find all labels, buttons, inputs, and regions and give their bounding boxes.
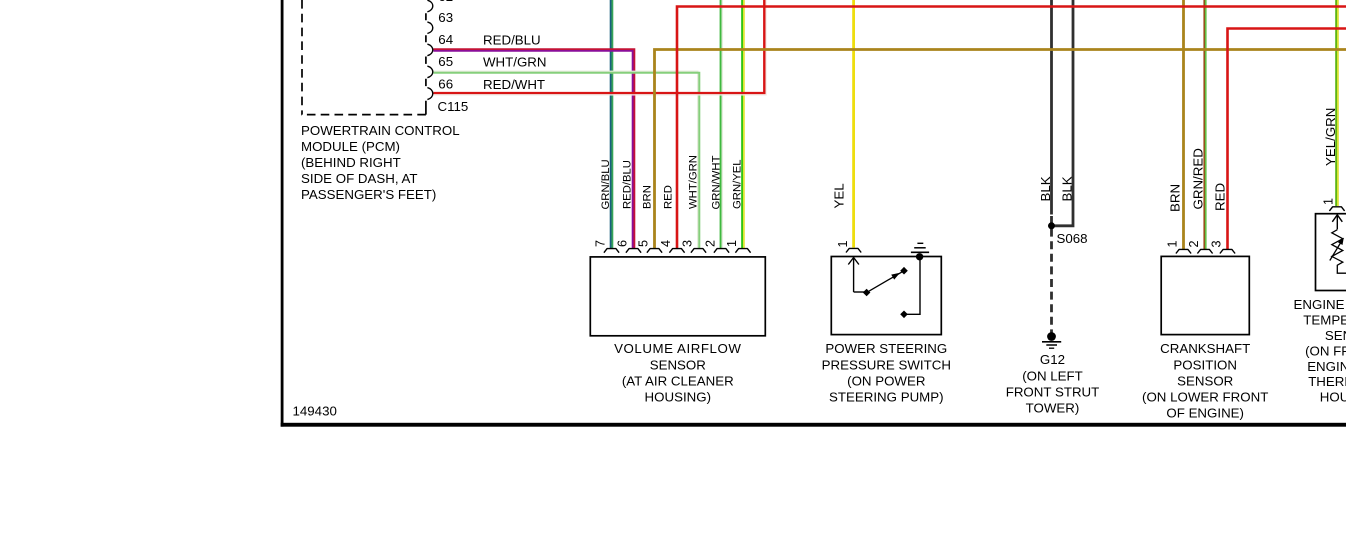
svg-text:PRESSURE SWITCH: PRESSURE SWITCH [822, 357, 951, 372]
switch contact diamond (common) [863, 289, 871, 297]
wire BLK dashed from S068 to ground G12 [1050, 216, 1053, 333]
svg-text:RED/WHT: RED/WHT [483, 77, 545, 92]
svg-text:SENSOR: SENSOR [1325, 328, 1346, 343]
svg-text:CRANKSHAFT: CRANKSHAFT [1160, 341, 1250, 356]
PCM pin 64 receptacle arc [427, 44, 432, 56]
svg-text:65: 65 [438, 54, 453, 69]
svg-text:1: 1 [836, 240, 850, 247]
svg-text:YEL: YEL [832, 183, 847, 208]
svg-text:RED: RED [663, 185, 675, 209]
PCM pin 66 receptacle arc [427, 88, 432, 100]
svg-text:WHT/GRN: WHT/GRN [688, 155, 700, 209]
switch common contact wire [854, 291, 865, 293]
svg-text:149430: 149430 [293, 403, 337, 418]
switch contact diamond (lower right) [900, 311, 908, 319]
svg-text:(AT AIR CLEANER: (AT AIR CLEANER [622, 373, 734, 388]
power steering switch connector hat pin 1 [846, 248, 861, 252]
svg-text:POWER STEERING: POWER STEERING [825, 341, 947, 356]
svg-text:ENGINE NEAR: ENGINE NEAR [1307, 359, 1346, 374]
svg-text:7: 7 [594, 240, 608, 247]
svg-text:MODULE (PCM): MODULE (PCM) [301, 139, 400, 154]
switch pin 1 arrow inside box [853, 259, 855, 293]
wire WHT/GRN from PCM pin 65 to airflow sensor pin 3 [434, 71, 698, 248]
svg-text:(BEHIND RIGHT: (BEHIND RIGHT [301, 155, 401, 170]
wire BLK vertical right with elbow into splice S068 [1054, 0, 1074, 226]
svg-text:S068: S068 [1057, 231, 1088, 246]
svg-text:VOLUME AIRFLOW: VOLUME AIRFLOW [614, 341, 741, 356]
wire BLK vertical left into splice S068 [1050, 0, 1053, 215]
svg-text:RED/BLU: RED/BLU [483, 32, 541, 47]
svg-text:RED/BLU: RED/BLU [622, 160, 634, 209]
splice S068 junction dot [1048, 222, 1055, 229]
svg-text:WHT/GRN: WHT/GRN [483, 55, 547, 70]
svg-text:62: 62 [438, 0, 453, 4]
svg-text:1: 1 [1322, 198, 1336, 205]
crankshaft sensor connector hats pins 1..3 [1176, 249, 1191, 253]
svg-text:G12: G12 [1040, 352, 1065, 367]
svg-text:TEMPERATURE: TEMPERATURE [1303, 313, 1346, 328]
svg-text:BLK: BLK [1060, 176, 1075, 201]
thermistor zigzag element [1332, 230, 1346, 274]
PCM pin 65 receptacle arc [427, 66, 432, 78]
ground G12 dot [1047, 332, 1056, 341]
svg-text:6: 6 [616, 240, 630, 247]
svg-text:OF ENGINE): OF ENGINE) [1166, 406, 1244, 421]
svg-text:STEERING PUMP): STEERING PUMP) [829, 390, 944, 405]
svg-text:(ON LOWER FRONT: (ON LOWER FRONT [1142, 390, 1268, 405]
svg-text:GRN/RED: GRN/RED [1191, 148, 1206, 209]
svg-text:4: 4 [659, 240, 673, 247]
chassis ground symbol above switch [911, 251, 929, 253]
svg-text:FRONT STRUT: FRONT STRUT [1006, 384, 1100, 399]
svg-text:BRN: BRN [1168, 184, 1183, 212]
coolant temp sensor connector hat pin 1 [1329, 207, 1344, 211]
PCM dashed box bottom edge [301, 114, 426, 116]
svg-text:C115: C115 [438, 99, 469, 114]
svg-text:64: 64 [438, 32, 453, 47]
svg-text:5: 5 [637, 240, 651, 247]
switch contact diamond (upper) [900, 267, 908, 275]
svg-text:POSITION: POSITION [1173, 357, 1237, 372]
svg-text:POWERTRAIN CONTROL: POWERTRAIN CONTROL [301, 123, 460, 138]
volume airflow sensor box [590, 257, 765, 336]
svg-text:3: 3 [1210, 240, 1224, 247]
svg-text:YEL/GRN: YEL/GRN [1323, 108, 1338, 166]
svg-text:HOUSING): HOUSING) [645, 390, 712, 405]
svg-text:(ON FRONT OF: (ON FRONT OF [1305, 343, 1346, 358]
PCM dashed box left edge [301, 0, 303, 115]
switch blade (normally open arm with arrowhead) [869, 272, 902, 291]
wire RED/WHT from PCM pin 66 up riser at x=765 [434, 0, 765, 93]
wire RED bus 2 and drop to crankshaft sensor pin 3 [1228, 29, 1346, 250]
svg-text:GRN/YEL: GRN/YEL [732, 159, 744, 209]
wire RED bus (top) and drop to airflow sensor pin 4 [677, 7, 1346, 249]
svg-text:(ON POWER: (ON POWER [847, 373, 925, 388]
svg-text:2: 2 [704, 240, 718, 247]
airflow sensor connector hats pins 7..1 [604, 249, 619, 253]
svg-text:SENSOR: SENSOR [1177, 373, 1233, 388]
wire YEL vertical to power steering pressure switch pin 1 [852, 0, 855, 248]
svg-text:1: 1 [725, 240, 739, 247]
svg-text:1: 1 [1166, 240, 1180, 247]
svg-text:HOUSING): HOUSING) [1320, 390, 1346, 405]
svg-text:THERMOSTAT: THERMOSTAT [1308, 374, 1346, 389]
svg-text:(ON LEFT: (ON LEFT [1022, 368, 1083, 383]
wire YEL/GRN vertical to engine coolant temp sensor pin 1 [1335, 0, 1337, 206]
svg-text:63: 63 [438, 10, 453, 25]
svg-text:66: 66 [438, 76, 453, 91]
crankshaft position sensor box [1161, 256, 1249, 334]
PCM pin 62 receptacle arc [427, 0, 432, 12]
svg-text:TOWER): TOWER) [1026, 401, 1080, 416]
svg-text:PASSENGER'S FEET): PASSENGER'S FEET) [301, 187, 436, 202]
ground G12 symbol lines [1042, 341, 1061, 343]
wire BRN bus and drop to airflow sensor pin 5 [655, 50, 1346, 249]
thermistor diagonal arrow [1330, 241, 1342, 261]
svg-text:2: 2 [1187, 240, 1201, 247]
engine coolant temperature sensor box [1316, 214, 1346, 291]
svg-text:GRN/BLU: GRN/BLU [600, 159, 612, 209]
wire GRN/YEL vertical to airflow sensor pin 1 [741, 0, 743, 249]
svg-text:ENGINE COOLANT: ENGINE COOLANT [1294, 297, 1346, 312]
power steering pressure switch box [831, 257, 941, 335]
switch ground junction dot on box edge [916, 253, 923, 260]
wire GRN/BLU vertical to airflow sensor pin 7 [610, 0, 612, 249]
wire BRN vertical to crankshaft sensor pin 1 [1182, 0, 1185, 249]
wire RED/BLU from PCM pin 64 to airflow sensor pin 6 [434, 49, 635, 248]
PCM dashed box right edge segments [425, 13, 427, 114]
switch ground branch wire [907, 257, 921, 314]
PCM pin 63 receptacle arc [427, 22, 432, 34]
wire GRN/WHT vertical to airflow sensor pin 2 [720, 0, 722, 249]
svg-text:3: 3 [681, 240, 695, 247]
frame bottom border [281, 423, 1346, 427]
svg-text:SIDE OF DASH, AT: SIDE OF DASH, AT [301, 171, 418, 186]
svg-text:BLK: BLK [1038, 176, 1053, 201]
svg-text:BRN: BRN [642, 185, 654, 209]
svg-text:SENSOR: SENSOR [650, 357, 706, 372]
frame left border [281, 0, 284, 427]
svg-text:GRN/WHT: GRN/WHT [711, 155, 723, 209]
coolant temp sensor pin 1 arrow inside box [1336, 216, 1338, 230]
wire GRN/RED vertical to crankshaft sensor pin 2 [1203, 0, 1205, 249]
svg-text:RED: RED [1213, 183, 1228, 211]
